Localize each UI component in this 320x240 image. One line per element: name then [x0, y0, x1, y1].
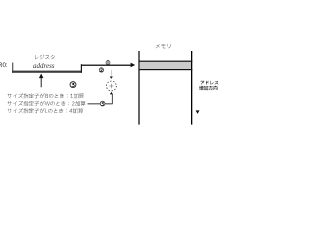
memory: left vertical edge [138, 51, 139, 125]
small down triangle (address increase direction) [196, 110, 200, 114]
memory cell: bottom line [139, 69, 193, 70]
label 増加方向 (increasing direction) [199, 86, 217, 90]
arrowhead up into adder (increment input) [110, 92, 113, 95]
register name R0: [0, 62, 8, 69]
arrowhead into memory cell [131, 63, 136, 68]
circled digit 2 near branch point [99, 68, 103, 72]
circled digit 1 on address bus [106, 61, 110, 65]
label レジスタ (register) [35, 55, 55, 60]
label アドレス (address) [201, 81, 219, 85]
register R0 box: right edge step up to bus [81, 64, 82, 73]
circled digit 3 on increment line [100, 101, 105, 106]
memory cell (shaded operand row): top line [139, 61, 193, 62]
register R0 box: bottom edge [12, 71, 82, 73]
note line 3: size specifier L adds 4 [7, 108, 83, 113]
memory: right vertical edge [191, 51, 192, 125]
arrowhead down into adder [110, 77, 113, 79]
memory cell: gray fill [140, 62, 191, 69]
circled digit 3 near write-back arrow [70, 82, 76, 88]
wire: horizontal increment line from note 2 [88, 102, 113, 105]
wire: branch down from bus to adder [110, 70, 113, 76]
note line 1: size specifier B adds 1 [7, 93, 84, 98]
register content: address (italic) [33, 62, 55, 70]
arrow up into register (write back incremented value) [41, 78, 42, 87]
label メモリ (memory) [156, 44, 171, 48]
wire: address bus from register to memory [82, 65, 132, 66]
register R0 box (open top): left edge [12, 63, 13, 73]
note line 2: size specifier W adds 2 [7, 101, 85, 106]
wire: vertical from increment line up to adder [111, 94, 114, 103]
adder U1: dashed circle with plus [107, 81, 117, 91]
